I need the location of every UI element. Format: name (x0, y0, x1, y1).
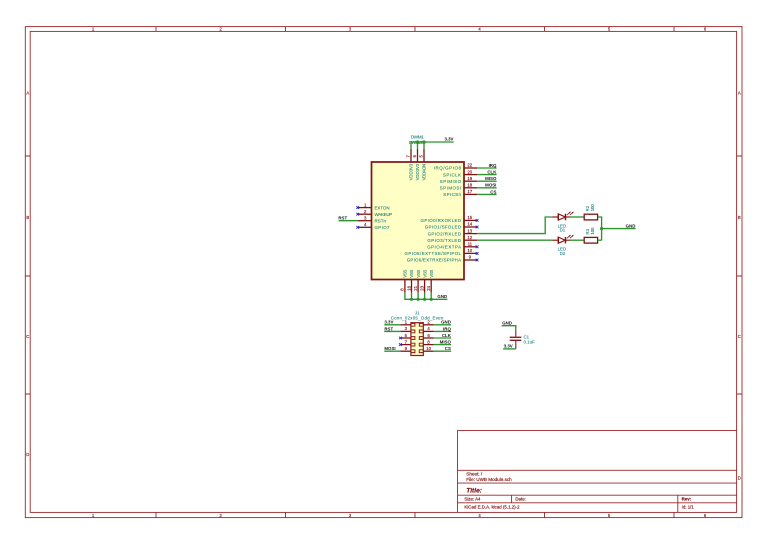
wire join to GND (602, 228, 636, 230)
svg-text:16: 16 (406, 285, 411, 290)
pin 7 VDD3V3 (406, 149, 411, 162)
wire CLK J1 pin6 (434, 337, 451, 339)
wire R2 to join (598, 217, 602, 240)
junction top rail A (416, 140, 419, 143)
svg-text:17: 17 (467, 189, 472, 194)
no-connect pin 9 (476, 259, 479, 262)
svg-text:VDD3V3: VDD3V3 (409, 163, 414, 180)
svg-text:SPIMOSI: SPIMOSI (440, 186, 461, 191)
svg-text:MOSI: MOSI (384, 346, 395, 351)
wire 3.3V to J1 pin1 (384, 324, 400, 326)
pin 11 GPIO4 (464, 242, 477, 247)
pin 4 GPIO7 (358, 222, 372, 227)
pin names top VDD3V3 VDD3V3 VDDAON (409, 163, 427, 180)
svg-text:Sheet: /: Sheet: / (466, 472, 483, 477)
wire C1 bottom to 3.3V (503, 348, 516, 350)
svg-text:IRQ: IRQ (443, 326, 451, 331)
IC DWM1 body (372, 162, 465, 280)
svg-text:23: 23 (419, 285, 424, 290)
J1 pin 9 (400, 346, 411, 351)
svg-text:GPIO1/SFDLED: GPIO1/SFDLED (425, 225, 461, 230)
svg-text:3.3V: 3.3V (384, 320, 393, 325)
pin 19 MISO (464, 176, 477, 181)
wire CS (477, 193, 497, 195)
J1 pin 5 (400, 333, 411, 338)
wire 3.3V rail top (411, 142, 454, 149)
J1 pin 4 (423, 326, 434, 331)
svg-text:SPICLK: SPICLK (443, 172, 461, 177)
svg-text:MISO: MISO (440, 340, 452, 345)
wire D1 to R2 (570, 216, 584, 218)
wire GND bus bottom (405, 293, 448, 300)
svg-text:12: 12 (467, 235, 472, 240)
pin names right lower (405, 218, 462, 263)
svg-text:SPIMISO: SPIMISO (440, 179, 462, 184)
wire GND to C1 top (502, 326, 516, 330)
svg-text:Size: A4: Size: A4 (464, 497, 481, 502)
svg-text:MOSI: MOSI (485, 183, 496, 188)
svg-text:GPIO3/TXLED: GPIO3/TXLED (427, 238, 461, 243)
svg-text:11: 11 (468, 242, 473, 247)
svg-text:GPIO6/EXTRXE/SPIPHA: GPIO6/EXTRXE/SPIPHA (407, 258, 461, 263)
pin 12 GPIO3/TXLED (464, 235, 477, 240)
svg-text:21: 21 (413, 285, 418, 290)
svg-text:Title:: Title: (466, 487, 482, 494)
svg-text:20: 20 (467, 169, 472, 174)
pin 10 GPIO5 (464, 248, 477, 253)
svg-text:15: 15 (467, 215, 472, 220)
wire D2 to R3 (570, 239, 584, 241)
J1 pin 10 (423, 346, 434, 351)
svg-text:CS: CS (445, 346, 451, 351)
svg-text:WAKEUP: WAKEUP (375, 212, 393, 217)
svg-text:VSS: VSS (422, 270, 427, 278)
svg-text:D: D (26, 452, 29, 457)
svg-text:VSS: VSS (403, 270, 408, 278)
svg-text:14: 14 (467, 222, 472, 227)
wire IRQ J1 pin4 (434, 330, 451, 332)
svg-text:A: A (738, 91, 741, 96)
connector J1 body (411, 323, 423, 356)
J1 pin 2 (423, 320, 434, 325)
J1 pin 6 (423, 333, 434, 338)
svg-text:IRQ/GPIO8: IRQ/GPIO8 (434, 166, 462, 171)
svg-text:18: 18 (467, 183, 472, 188)
svg-text:VDDAON: VDDAON (422, 164, 427, 181)
J1 pin 7 (400, 339, 411, 344)
svg-text:KiCad E.D.A. kicad (5.1.2)-2: KiCad E.D.A. kicad (5.1.2)-2 (464, 505, 520, 510)
svg-text:10: 10 (467, 248, 472, 253)
svg-text:IRQ: IRQ (489, 163, 497, 168)
border zone letters left (26, 91, 29, 458)
svg-text:3.3V: 3.3V (444, 137, 453, 142)
border zone numbers top (92, 27, 707, 32)
wire MISO J1 pin8 (434, 344, 451, 346)
svg-text:D: D (738, 476, 741, 481)
capacitor C1 (510, 330, 522, 349)
svg-text:Date:: Date: (515, 497, 526, 502)
svg-text:Rev:: Rev: (682, 497, 692, 502)
svg-text:GND: GND (626, 224, 636, 229)
border zone numbers bottom (92, 513, 707, 518)
svg-text:10: 10 (426, 346, 431, 351)
svg-text:GPIO7: GPIO7 (375, 225, 391, 230)
wire MOSI to J1 pin9 (384, 350, 400, 352)
pin 15 GPIO0 (464, 215, 477, 220)
svg-text:DWM1: DWM1 (411, 134, 424, 139)
svg-text:VDD3V3: VDD3V3 (415, 163, 420, 180)
pin 2 WAKEUP (358, 209, 372, 214)
svg-text:File: UWB Module.sch: File: UWB Module.sch (466, 477, 512, 482)
pin 6 VDD3V3 (412, 149, 417, 162)
LED D2 (552, 235, 574, 244)
J1 pin 3 (400, 326, 411, 331)
wire CLK (477, 174, 497, 176)
pin names bottom VSS x5 (403, 270, 434, 278)
no-connect pin 15 (476, 219, 479, 222)
pin 23 VSS (419, 280, 424, 293)
svg-text:VSS: VSS (416, 270, 421, 278)
svg-text:19: 19 (467, 176, 472, 181)
pin 9 GPIO6 (464, 255, 477, 260)
pin 20 CLK (464, 169, 477, 174)
pin names left side (375, 205, 393, 230)
svg-text:RST: RST (384, 326, 393, 331)
pin 18 MOSI (464, 183, 477, 188)
title block frame (458, 431, 737, 513)
pin 22 IRQ (464, 163, 477, 168)
pin 13 GPIO2/RXLED (464, 228, 477, 233)
svg-text:C: C (26, 334, 29, 339)
wire pin13 to LED D1 (477, 217, 552, 234)
svg-text:RST: RST (338, 216, 347, 221)
svg-text:A: A (26, 91, 29, 96)
pin 14 GPIO1 (464, 222, 477, 227)
svg-text:GND: GND (437, 294, 447, 299)
svg-text:GND: GND (441, 320, 451, 325)
no-connect pin 14 (476, 226, 479, 229)
wire MOSI (477, 187, 497, 189)
svg-text:GND: GND (502, 321, 512, 326)
svg-text:0.1uF: 0.1uF (524, 340, 536, 345)
svg-text:22: 22 (467, 163, 472, 168)
svg-text:3.3V: 3.3V (504, 344, 513, 349)
svg-text:13: 13 (467, 228, 472, 233)
no-connect J1 pin 7 (399, 343, 402, 346)
svg-text:CLK: CLK (442, 333, 452, 338)
LED D1 (552, 212, 574, 221)
junction GND bus 2 (417, 298, 420, 301)
svg-text:SPICSn: SPICSn (443, 192, 461, 197)
pin 5 VDDAON (419, 149, 424, 162)
svg-text:B: B (738, 215, 741, 220)
svg-text:Id: 1/1: Id: 1/1 (682, 505, 695, 510)
wire RST to pin 3 (339, 220, 358, 222)
wire CS J1 pin10 (434, 350, 451, 352)
svg-text:VSS: VSS (409, 270, 414, 278)
J1 pin 8 (423, 339, 434, 344)
resistor R3 (584, 237, 597, 243)
border zone letters right (738, 91, 741, 481)
wire MISO (477, 180, 497, 182)
svg-text:EXTON: EXTON (375, 205, 390, 210)
no-connect pin 10 (476, 252, 479, 255)
svg-text:Conn_02x05_Odd_Even: Conn_02x05_Odd_Even (391, 316, 444, 321)
no-connect pin 2 (356, 213, 359, 216)
wire R3 to join (598, 239, 602, 241)
wire GND J1 pin2 (434, 324, 451, 326)
junction LED join (600, 227, 603, 230)
wire pin12 to LED D2 (477, 239, 552, 241)
junction top rail B (422, 140, 425, 143)
pin 16 VSS (406, 280, 411, 293)
svg-text:GPIO4/EXTPA: GPIO4/EXTPA (427, 245, 461, 250)
resistor R2 (584, 214, 597, 220)
svg-text:B: B (26, 215, 29, 220)
svg-text:CS: CS (490, 189, 496, 194)
svg-text:VSS: VSS (429, 270, 434, 278)
svg-text:24: 24 (426, 285, 431, 290)
pin names right top (434, 166, 462, 197)
svg-text:C: C (738, 334, 741, 339)
junction GND bus 4 (430, 298, 433, 301)
no-connect pin 11 (476, 245, 479, 248)
wire IRQ (477, 167, 497, 169)
svg-text:100: 100 (590, 204, 595, 212)
pin 24 VSS (426, 280, 431, 293)
no-connect J1 pin 5 (399, 337, 402, 340)
connector J1 notches (411, 323, 423, 352)
pin 17 CS (464, 189, 477, 194)
svg-text:GPIO2/RXLED: GPIO2/RXLED (428, 231, 461, 236)
svg-text:CLK: CLK (487, 170, 497, 175)
junction GND bus 3 (423, 298, 426, 301)
svg-text:GPIO5/EXTTXE/SPIPOL: GPIO5/EXTTXE/SPIPOL (405, 251, 462, 256)
svg-text:MISO: MISO (485, 176, 497, 181)
J1 pin 1 (400, 320, 411, 325)
wire RST to J1 pin3 (384, 330, 400, 332)
junction GND bus 1 (410, 298, 413, 301)
pin 21 VSS (413, 280, 418, 293)
svg-text:D1: D1 (560, 228, 566, 233)
pin 1 EXTON (358, 202, 372, 207)
svg-text:D2: D2 (560, 251, 566, 256)
svg-text:RSTn: RSTn (375, 218, 387, 223)
svg-text:GPIO0/RXOKLED: GPIO0/RXOKLED (421, 218, 462, 223)
pin 8 VSS (400, 280, 405, 293)
no-connect pin 1 (356, 206, 359, 209)
pin 3 RSTn (358, 215, 372, 220)
svg-text:100: 100 (590, 227, 595, 235)
no-connect pin 4 (356, 226, 359, 229)
